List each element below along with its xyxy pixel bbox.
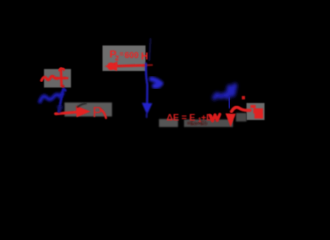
svg-text:2: 2 (115, 56, 119, 63)
red W / check blob at end of formula (210, 114, 220, 121)
blue left cluster: wave (40, 94, 63, 102)
red dagger (vertical with crossbar) (57, 69, 67, 86)
red dot above swoosh (242, 96, 245, 99)
red arrow 3 down (right group) (225, 113, 235, 127)
red formula "ΔE = E1+D..." (bottom middle) (167, 113, 214, 125)
red left cluster: squiggle (42, 76, 58, 80)
dark navy upper shaft segment (149, 39, 150, 60)
faint dark curve above bottom-left arrowhead (78, 104, 87, 108)
blue shaft and arrowhead (146, 64, 147, 104)
svg-text:H: H (141, 52, 148, 63)
red label in box 3 (251, 105, 264, 119)
gray label box 3 (right group) (247, 103, 265, 120)
red dagger top blob (60, 68, 64, 70)
red arrow 2 pointing right (bottom-left) (56, 106, 91, 118)
red swoosh toward box 3 (232, 107, 251, 111)
gray band 5b (under formula, right piece) (184, 120, 233, 128)
gray label box 4 (bottom-left, behind right arrow label) (65, 103, 113, 117)
svg-text:=: = (120, 52, 124, 59)
navy arrowhead bottom-left (57, 106, 64, 114)
blue right text blobs (215, 86, 235, 99)
svg-text:ΔE = E: ΔE = E (167, 113, 196, 123)
gray label box 2 (left group) (44, 69, 71, 88)
blue label swoosh (right of arrow 4) (152, 79, 161, 86)
ultra faint dark glyphs bottom center (162, 132, 257, 146)
svg-text:P: P (93, 104, 103, 121)
red arrow 1 pointing left (mid) (105, 62, 152, 72)
gray label box 1 (behind P2 text, top middle) (103, 46, 146, 72)
gray tab left of box 3 (236, 113, 247, 122)
svg-text:600: 600 (125, 50, 139, 60)
red label "P2 = 600 H" in box 1 (110, 49, 149, 63)
blue arrow 4 down (middle) (142, 39, 153, 117)
blue vertical line (right group) (228, 98, 231, 108)
red label P with swoosh (bottom-left) (93, 104, 107, 121)
red dagger tip dot (62, 85, 65, 88)
blue vertical line with hook (left) (59, 89, 66, 112)
gray band 5a (under formula, left piece) (159, 119, 178, 127)
